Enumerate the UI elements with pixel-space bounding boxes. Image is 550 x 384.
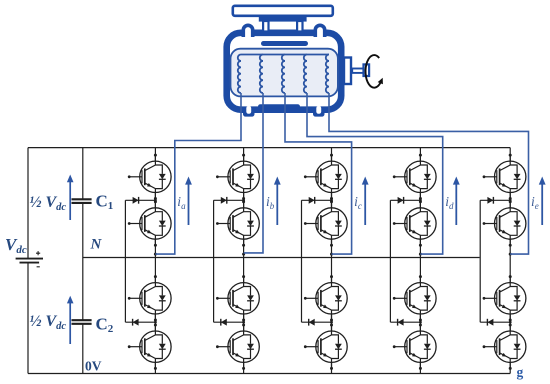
wire capacitor rail upper [82,148,84,200]
wire clamp branch d [390,200,420,322]
wire clamp branch a [125,200,155,322]
wire motor phase c [285,93,352,254]
arrow current i_c [362,177,369,226]
svg-text:0V: 0V [85,359,102,374]
wire leg e vertical segments [509,148,511,374]
svg-text:½Vdc: ½Vdc [30,194,67,213]
wire neutral rail N [83,257,480,259]
motor winding coil 1 [238,55,241,94]
diode Da1 (clamp upper) [133,197,139,204]
wire top DC+ rail [28,147,510,149]
wire leg a vertical segments [154,148,156,374]
wire capacitor rail lower [82,324,84,374]
motor vent slot top [261,41,308,46]
transistor Se1 (IGBT module) [483,154,526,200]
wire capacitor rail middle [82,203,84,320]
transistor Se3 (IGBT module) [483,275,526,321]
transistor Sb2 (IGBT module) [216,200,259,246]
wire clamp branch c [302,200,332,322]
wire motor phase a [155,93,241,254]
node clamp junctions leg a [154,199,157,324]
arrow current i_e [539,177,546,226]
diode Dc2 (clamp lower) [309,319,315,326]
svg-text:N: N [90,237,103,253]
capacitor C1 [72,199,92,203]
wire leg c vertical segments [331,148,333,374]
motor mount post right [297,21,302,32]
svg-text:C2: C2 [96,315,114,336]
motor shaft end [364,64,370,76]
motor winding bus [241,54,329,56]
rotation arrow [366,55,383,88]
diode Db1 (clamp upper) [221,197,227,204]
motor winding coil 4 [304,55,307,94]
diode Dd2 (clamp lower) [398,319,404,326]
wire bottom DC- rail (0V) [28,373,510,375]
motor lifting lug left [243,25,252,37]
motor winding coil 5 [326,55,329,94]
diode Dc1 (clamp upper) [309,197,315,204]
svg-text:ia: ia [177,194,186,211]
diode De1 (clamp upper) [487,197,493,204]
motor top plate [233,6,333,16]
motor shaft [352,69,364,73]
capacitor C2 [72,320,92,324]
transistor Sd4 (IGBT module) [393,324,436,370]
motor shaft housing [344,58,351,85]
arrow current i_d [453,177,460,226]
arrow current i_b [274,177,281,226]
transistor Sd2 (IGBT module) [393,200,436,246]
transistor Sd1 (IGBT module) [393,154,436,200]
wire leg d vertical segments [419,148,421,374]
svg-text:ic: ic [354,194,362,211]
arrow half Vdc lower [67,296,74,344]
svg-text:½Vdc: ½Vdc [30,313,67,332]
wire leg b vertical segments [243,148,245,374]
transistor Sb4 (IGBT module) [216,324,259,370]
wire clamp branch e [480,200,510,322]
motor vent slot bottom [258,104,300,109]
diode Db2 (clamp lower) [221,319,227,326]
diode De2 (clamp lower) [487,319,493,326]
motor winding coil 2 [260,55,263,94]
transistor Sa2 (IGBT module) [128,200,171,246]
motor foot left [243,107,255,117]
transistor Se4 (IGBT module) [483,324,526,370]
transistor Sb3 (IGBT module) [216,275,259,321]
motor winding coil 3 [282,55,285,94]
arrow current i_a [185,177,192,226]
node clamp junctions leg c [330,199,333,324]
transistor Sa4 (IGBT module) [128,324,171,370]
svg-text:ib: ib [266,194,275,211]
transistor Sc3 (IGBT module) [304,275,347,321]
wire left rail lower [27,262,29,373]
transistor Sd3 (IGBT module) [393,275,436,321]
transistor Sb1 (IGBT module) [216,154,259,200]
wire clamp branch b [214,200,244,322]
svg-text:id: id [445,194,454,211]
motor mount post left [263,21,268,32]
wire motor phase d [307,93,443,254]
wire motor phase e [329,93,529,254]
transistor Se2 (IGBT module) [483,200,526,246]
motor stator window [231,49,338,97]
node clamp junctions leg d [419,199,422,324]
svg-text:Vdc: Vdc [5,235,27,256]
motor foot right [313,107,325,117]
svg-text:g: g [517,365,524,380]
node clamp junctions leg b [242,199,245,324]
transistor Sc4 (IGBT module) [304,324,347,370]
transistor Sc1 (IGBT module) [304,154,347,200]
motor lifting lug right [315,25,324,37]
wire left rail upper [27,148,29,259]
node clamp junctions leg e [509,199,512,324]
motor mount bar [259,16,307,21]
transistor Sc2 (IGBT module) [304,200,347,246]
transistor Sa3 (IGBT module) [128,275,171,321]
diode Dd1 (clamp upper) [398,197,404,204]
arrow half Vdc upper [67,175,74,221]
motor M body [227,33,342,110]
battery Vdc [16,251,43,267]
svg-text:C1: C1 [96,192,114,213]
diode Da2 (clamp lower) [133,319,139,326]
transistor Sa1 (IGBT module) [128,154,171,200]
wire motor phase b [244,93,263,253]
svg-text:ie: ie [531,194,539,211]
